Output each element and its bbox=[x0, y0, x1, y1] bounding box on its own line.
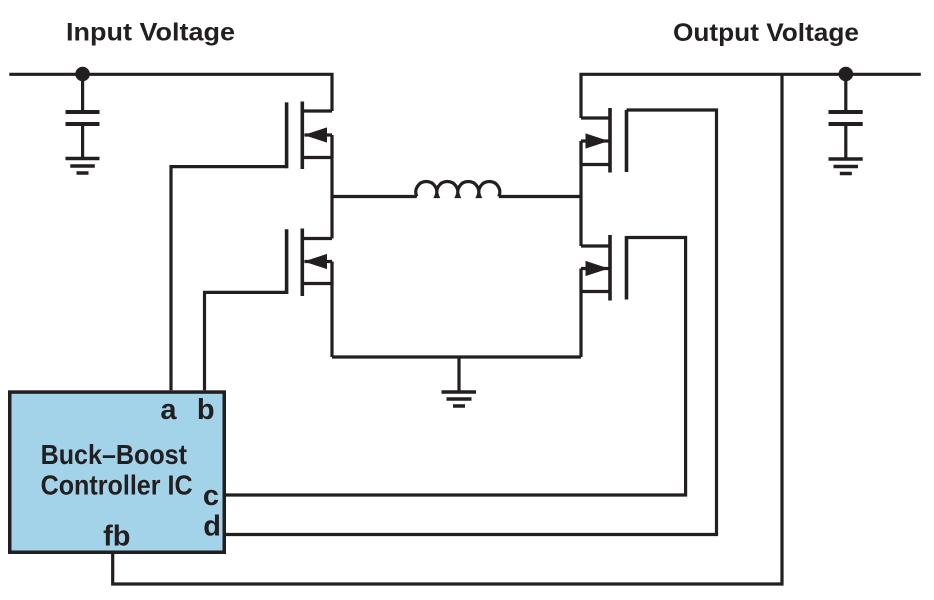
wire Q4 source to bottom rail bbox=[579, 292, 582, 358]
transistor Q1 (top-left MOSFET) gate and channel bbox=[287, 102, 303, 170]
transistor Q2 body arrow bbox=[304, 254, 327, 269]
svg-text:a: a bbox=[160, 394, 177, 426]
svg-text:Output Voltage: Output Voltage bbox=[673, 19, 859, 47]
transistor Q2 drain tap bbox=[302, 237, 332, 240]
controller U1 box bbox=[10, 392, 225, 552]
capacitor C1 bbox=[66, 112, 100, 124]
wire output rail bbox=[581, 74, 921, 118]
transistor Q3 body line bbox=[581, 139, 609, 142]
svg-text:c: c bbox=[203, 480, 219, 512]
capacitor C2 bbox=[829, 112, 863, 124]
transistor Q3 drain tap bbox=[581, 116, 610, 119]
transistor Q3 (top-right MOSFET) gate and channel bbox=[610, 108, 627, 173]
wire C2 to ground bbox=[844, 124, 847, 159]
transistor Q4 drain tap bbox=[581, 244, 610, 247]
wire ground stub bbox=[457, 357, 460, 392]
svg-text:d: d bbox=[203, 511, 221, 543]
ground G2 bbox=[829, 159, 863, 174]
node output junction bbox=[839, 67, 854, 82]
svg-text:Input Voltage: Input Voltage bbox=[66, 19, 235, 47]
wire pin a to Q1 gate bbox=[171, 167, 287, 391]
transistor Q1 source tap bbox=[302, 156, 332, 159]
transistor Q2 (bottom-left MOSFET) gate and channel bbox=[287, 229, 303, 297]
wire Q3 source to Q4 drain bbox=[579, 165, 582, 247]
svg-text:Controller IC: Controller IC bbox=[41, 469, 193, 500]
svg-text:Buck–Boost: Buck–Boost bbox=[41, 439, 187, 470]
transistor Q1 body line bbox=[305, 133, 333, 136]
transistor Q1 body arrow bbox=[304, 127, 327, 142]
transistor Q4 body arrow bbox=[586, 261, 609, 276]
wire pin fb to output rail bbox=[113, 74, 782, 584]
wire pin b to Q2 gate bbox=[205, 292, 287, 390]
wire pin c to Q4 gate bbox=[226, 238, 686, 496]
wire Q2 source to bottom rail bbox=[330, 284, 333, 358]
ground G1 bbox=[66, 159, 100, 174]
inductor L1 bbox=[416, 182, 500, 197]
transistor Q4 body line bbox=[581, 267, 609, 270]
transistor Q1 drain tap bbox=[302, 109, 332, 112]
wire mid rail left bbox=[332, 195, 417, 198]
wire pin d to Q3 gate bbox=[226, 110, 717, 535]
capacitor C2 lead bbox=[844, 74, 847, 112]
capacitor C1 lead bbox=[81, 74, 84, 112]
transistor Q3 body arrow bbox=[586, 133, 609, 148]
svg-text:b: b bbox=[197, 394, 215, 426]
wire C1 to ground bbox=[81, 124, 84, 159]
wire Q1 source to Q2 drain bbox=[330, 158, 333, 239]
svg-text:fb: fb bbox=[103, 521, 130, 553]
transistor Q4 (bottom-right MOSFET) gate and channel bbox=[610, 235, 627, 301]
transistor Q4 source tap bbox=[581, 290, 610, 293]
ground G3 bbox=[442, 392, 477, 406]
transistor Q3 source tap bbox=[581, 163, 610, 166]
wire input rail bbox=[9, 74, 332, 111]
wire bottom rail bbox=[332, 355, 581, 358]
wire mid rail right bbox=[499, 195, 581, 198]
transistor Q2 source tap bbox=[302, 282, 332, 285]
node input junction bbox=[75, 67, 90, 82]
transistor Q2 body line bbox=[305, 260, 333, 263]
